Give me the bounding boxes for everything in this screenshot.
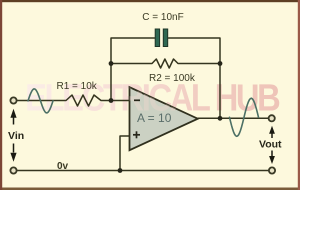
svg-text:Vout: Vout (259, 139, 282, 151)
svg-text:A = 10: A = 10 (137, 111, 172, 125)
svg-text:R1 = 10k: R1 = 10k (57, 81, 98, 92)
svg-text:R2 = 100k: R2 = 100k (149, 73, 196, 84)
svg-text:Vin: Vin (8, 130, 24, 142)
svg-text:C = 10nF: C = 10nF (142, 12, 183, 23)
svg-text:0v: 0v (57, 161, 69, 172)
